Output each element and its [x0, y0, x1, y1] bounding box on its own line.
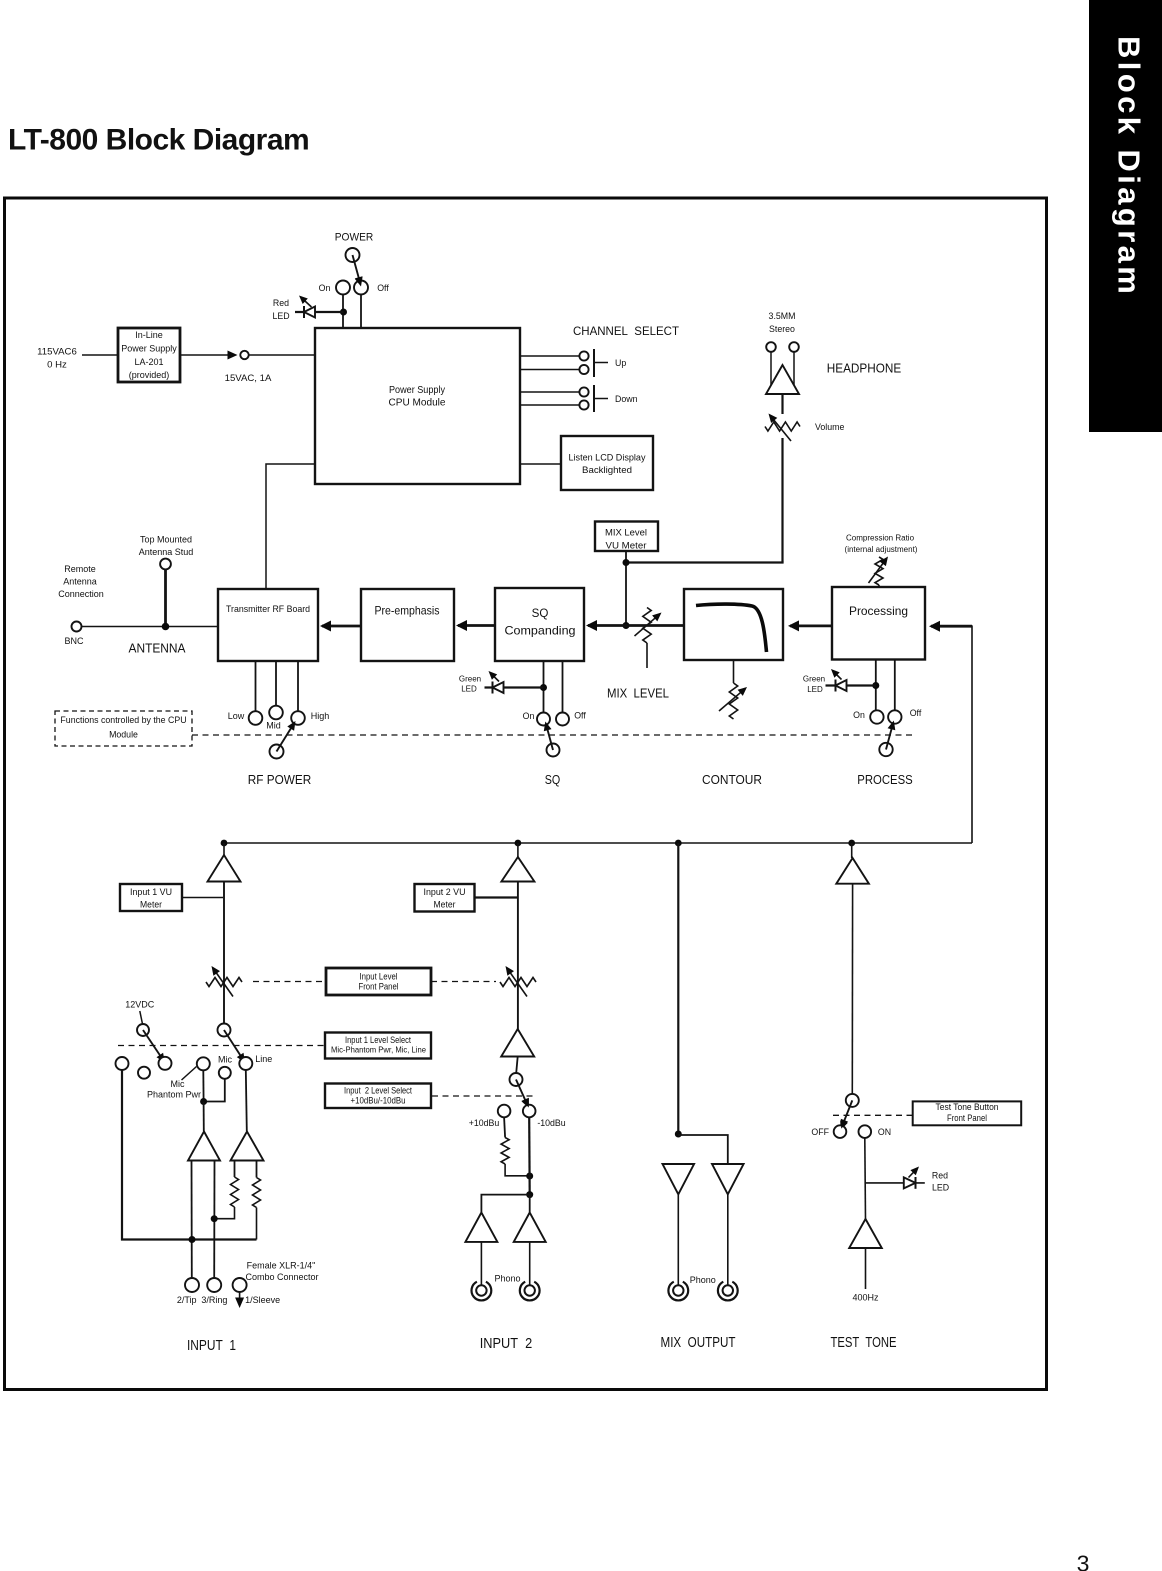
svg-text:-10dBu: -10dBu	[537, 1118, 565, 1128]
switch S1 On contact	[336, 281, 350, 295]
potentiometer CONTOUR internal	[729, 683, 737, 719]
connector phono jack mix left	[668, 1282, 688, 1301]
svg-text:Green: Green	[459, 675, 481, 684]
svg-text:LED: LED	[272, 311, 289, 321]
svg-text:+10dBu/-10dBu: +10dBu/-10dBu	[351, 1096, 406, 1106]
ground symbol input1	[235, 1298, 244, 1309]
wire junction to left preamp	[203, 1102, 205, 1132]
svg-text:Low: Low	[228, 711, 245, 721]
block SQ Companding	[495, 588, 584, 661]
contact phantom NC	[138, 1067, 150, 1079]
wire input1 amp to level pot	[223, 882, 225, 1025]
wire bottom mix bus	[224, 842, 972, 844]
potentiometer input2 level	[500, 978, 536, 987]
svg-text:LT-800 Block Diagram: LT-800 Block Diagram	[8, 124, 309, 157]
svg-text:LED: LED	[807, 685, 823, 694]
switch Up button contacts	[579, 351, 588, 360]
svg-text:LED: LED	[932, 1183, 949, 1193]
svg-text:CPU Module: CPU Module	[389, 397, 446, 409]
dashed link input1 pot to input level box	[253, 981, 326, 983]
junction dot pad join	[526, 1173, 533, 1180]
svg-text:HEADPHONE: HEADPHONE	[827, 361, 902, 376]
svg-text:15VAC, 1A: 15VAC, 1A	[225, 373, 272, 384]
svg-text:Mic: Mic	[218, 1054, 232, 1064]
svg-text:Input 2 Level Select: Input 2 Level Select	[344, 1086, 412, 1096]
svg-text:Antenna: Antenna	[63, 577, 97, 587]
switch RF High contact	[291, 711, 305, 725]
wire signal Pre-emphasis to Transmitter with arrow	[322, 625, 361, 628]
svg-text:Input 1 VU: Input 1 VU	[130, 887, 172, 897]
junction dot input1 bus	[221, 840, 228, 847]
svg-text:Top Mounted: Top Mounted	[140, 535, 192, 545]
svg-text:SQ: SQ	[545, 772, 561, 787]
svg-text:Green: Green	[803, 675, 825, 684]
svg-text:400Hz: 400Hz	[852, 1293, 879, 1303]
svg-text:Test Tone Button: Test Tone Button	[936, 1102, 999, 1112]
wire signal SQ to Pre-emphasis with arrow	[458, 624, 495, 627]
svg-text:Mic-Phantom Pwr, Mic, Line: Mic-Phantom Pwr, Mic, Line	[331, 1046, 427, 1055]
block Listen LCD Display Backlighted	[561, 436, 653, 490]
switch Down button contacts	[579, 387, 588, 396]
wire channel up contact a	[520, 355, 579, 357]
svg-text:LED: LED	[461, 685, 477, 694]
wire signal feed to Processing with arrow and drop to bottom bus	[931, 626, 972, 843]
svg-text:Down: Down	[615, 394, 638, 404]
wire Off contact to CPU module	[360, 295, 362, 329]
svg-text:In-Line: In-Line	[135, 330, 163, 340]
switch RF Mid contact	[269, 706, 283, 720]
switch Process Off contact	[888, 710, 901, 723]
svg-text:LA-201: LA-201	[134, 357, 163, 367]
amp U5 input2 summing	[501, 857, 534, 882]
svg-text:Mid: Mid	[266, 721, 281, 731]
wire signal Processing to Contour with arrow	[790, 625, 832, 628]
wire signal mix line into SQ with arrow	[588, 624, 684, 627]
wire ON contact to oscillator amp	[864, 1138, 867, 1220]
svg-text:Mic: Mic	[171, 1079, 185, 1089]
svg-text:INPUT 2: INPUT 2	[480, 1335, 533, 1352]
junction dot mix output bus	[675, 840, 682, 847]
wire jack to CPU module	[249, 354, 315, 356]
svg-text:Phono: Phono	[494, 1274, 520, 1284]
pointer line mic phantom label	[182, 1067, 197, 1081]
svg-text:Volume: Volume	[815, 422, 844, 432]
wire 12VDC label to switch	[140, 1011, 143, 1024]
svg-text:Meter: Meter	[434, 900, 456, 910]
wire bus to mix output split	[677, 843, 679, 1134]
svg-text:On: On	[853, 710, 865, 720]
wire right preamp to resistor R1	[234, 1161, 236, 1178]
junction dot SQ LED tap	[540, 684, 547, 691]
wire R1 to ring junction	[214, 1207, 234, 1219]
svg-text:0 Hz: 0 Hz	[47, 360, 67, 371]
wire amp to volume pot	[781, 394, 783, 414]
amp U8 input2 right driver	[514, 1213, 546, 1242]
amp U2 input1 summing	[208, 855, 241, 882]
svg-text:(internal adjustment): (internal adjustment)	[845, 545, 918, 554]
svg-text:Red: Red	[273, 298, 289, 308]
potentiometer MIX LEVEL	[643, 608, 651, 644]
wire mix left driver to phono	[677, 1194, 679, 1285]
svg-text:Line: Line	[255, 1054, 272, 1064]
svg-text:On: On	[523, 711, 535, 721]
amp U3 input1 mic preamp	[188, 1132, 220, 1161]
junction dot mix split	[675, 1131, 682, 1138]
wire jack tip to amp	[770, 352, 772, 385]
switch Process On contact	[870, 710, 883, 723]
amp U9 mix left driver	[663, 1164, 695, 1194]
resistor R2 input1	[253, 1178, 261, 1208]
svg-text:Phantom Pwr: Phantom Pwr	[147, 1090, 201, 1100]
wire buffer to test tone switch	[851, 884, 853, 1094]
svg-text:Off: Off	[910, 708, 922, 718]
svg-text:Block Diagram: Block Diagram	[1112, 36, 1147, 297]
wire jack ring to amp	[793, 352, 795, 385]
switch PROCESS lever	[879, 743, 892, 756]
wire antenna stud to feed	[164, 569, 167, 626]
connector XLR pin 1 Sleeve	[233, 1278, 247, 1292]
junction dot mic join	[200, 1098, 207, 1105]
wire split to right output amp	[529, 1195, 531, 1212]
svg-text:2/Tip: 2/Tip	[177, 1295, 197, 1305]
amp U12 test tone oscillator output	[849, 1219, 882, 1248]
diagram border frame	[5, 198, 1047, 1390]
svg-text:(provided): (provided)	[129, 370, 170, 380]
wire SQ box to Off contact	[562, 661, 564, 713]
contact test tone OFF	[834, 1125, 847, 1138]
wire channel up contact b	[520, 369, 579, 371]
switch S1 POWER pivot and lever	[346, 248, 360, 262]
svg-text:INPUT 1: INPUT 1	[187, 1337, 236, 1354]
wire bus to test tone amp	[851, 843, 853, 858]
svg-text:Front Panel: Front Panel	[359, 982, 399, 992]
svg-text:Off: Off	[574, 711, 586, 721]
wire VU meter to mix line	[625, 551, 627, 626]
svg-text:RF POWER: RF POWER	[248, 772, 312, 787]
wire +10dBu to pad resistor	[504, 1117, 505, 1137]
svg-text:Up: Up	[615, 358, 626, 368]
wire processing to On contact	[875, 660, 877, 711]
svg-text:Pre-emphasis: Pre-emphasis	[375, 605, 440, 618]
svg-text:Input 2 VU: Input 2 VU	[424, 887, 466, 897]
svg-text:Phono: Phono	[690, 1275, 716, 1285]
wire processing to Off contact	[894, 660, 896, 711]
connector phono jack mix right	[718, 1282, 738, 1301]
wire transmitter to High contact	[297, 661, 299, 711]
switch test tone pivot and lever	[846, 1094, 859, 1107]
junction dot R1 to ring	[211, 1215, 218, 1222]
wire volume to mix bus	[781, 438, 783, 563]
wire mix split to right driver	[678, 1135, 728, 1164]
switch input2 selector pivot and lever	[510, 1073, 523, 1086]
block Pre-emphasis	[361, 589, 454, 661]
block Contour filter with response curve	[684, 589, 783, 660]
LED D4 Red LED test tone	[904, 1177, 916, 1188]
wire -10dBu to split junction	[528, 1117, 531, 1194]
wire SQ box to On contact	[543, 661, 545, 713]
svg-text:High: High	[311, 711, 330, 721]
svg-text:Remote: Remote	[64, 564, 96, 574]
connector XLR pin 2 Tip	[185, 1278, 199, 1292]
switch input1 selector pivot and lever	[218, 1024, 231, 1037]
svg-text:Power Supply: Power Supply	[389, 384, 446, 396]
svg-text:Front Panel: Front Panel	[947, 1113, 987, 1123]
svg-text:3/Ring: 3/Ring	[201, 1295, 227, 1305]
svg-text:Module: Module	[109, 730, 138, 740]
junction dot sleeve join	[189, 1236, 196, 1243]
svg-text:+10dBu: +10dBu	[469, 1118, 500, 1128]
switch SQ lever	[547, 744, 560, 757]
contact mic-phantom input	[197, 1057, 210, 1070]
potentiometer Volume	[765, 422, 800, 431]
block Input 1 VU Meter	[120, 884, 182, 911]
dashed line functions controlled by CPU	[192, 734, 912, 736]
wire CPU module to LCD	[520, 463, 561, 465]
block Input Level Front Panel callout	[326, 968, 431, 995]
junction dot input2 bus	[515, 840, 522, 847]
block Input 2 Level Select callout	[325, 1084, 431, 1109]
wire sleeve to ground	[239, 1292, 241, 1299]
wire mix right driver to phono	[727, 1194, 729, 1285]
svg-text:CHANNEL SELECT: CHANNEL SELECT	[573, 324, 680, 338]
wire VU meter tap input1	[182, 897, 223, 899]
wire transmitter to Mid contact	[275, 661, 277, 706]
wire mic-phantom contact to amp	[202, 1070, 204, 1101]
wire left driver to phono	[480, 1242, 482, 1285]
LED D2 Green LED SQ	[485, 686, 544, 688]
block Power Supply CPU Module	[315, 328, 520, 484]
wire BNC to transmitter	[82, 626, 219, 628]
switch RF Low contact	[249, 711, 263, 725]
svg-text:Compression Ratio: Compression Ratio	[846, 534, 915, 543]
contact mic input	[219, 1067, 231, 1079]
svg-text:PROCESS: PROCESS	[857, 772, 913, 787]
svg-text:Power Supply: Power Supply	[121, 344, 177, 354]
amp U6 input2 buffer	[501, 1029, 534, 1057]
wire mic contact jog	[204, 1079, 225, 1102]
resistor R1 input1	[231, 1177, 239, 1207]
svg-text:Transmitter RF Board: Transmitter RF Board	[226, 604, 310, 614]
svg-text:Companding: Companding	[505, 625, 576, 638]
block Processing	[832, 587, 925, 660]
wire supply output with arrow	[180, 354, 228, 356]
svg-text:ON: ON	[878, 1127, 891, 1137]
LED D1 Red LED	[295, 311, 344, 313]
svg-text:BNC: BNC	[64, 636, 84, 646]
svg-text:ANTENNA: ANTENNA	[129, 641, 186, 656]
switch RF POWER lever	[270, 745, 284, 759]
dashed box Functions controlled by the CPU Module	[55, 711, 192, 746]
connector phono jack input2 right	[520, 1282, 540, 1301]
contact -10dBu	[523, 1105, 536, 1118]
svg-text:Input 1 Level Select: Input 1 Level Select	[345, 1035, 411, 1045]
amp U11 test tone buffer	[836, 858, 869, 884]
wire buffer to selector	[516, 1057, 518, 1074]
junction dot VU tap on mix line	[623, 622, 630, 629]
connector 15VAC jack	[240, 351, 248, 359]
wire bus to input2 amp	[517, 843, 519, 857]
block In-Line Power Supply LA-201	[118, 328, 180, 382]
wire LED branch	[866, 1182, 925, 1184]
wire oscillator to 400Hz source	[865, 1248, 867, 1289]
svg-text:CONTOUR: CONTOUR	[702, 772, 762, 787]
svg-text:TEST TONE: TEST TONE	[831, 1334, 897, 1351]
potentiometer input1 level	[206, 978, 242, 987]
connector XLR pin 3 Ring	[207, 1278, 221, 1292]
connector antenna stud	[160, 559, 171, 570]
switch S1 Off contact	[354, 281, 368, 295]
svg-text:115VAC6: 115VAC6	[37, 347, 77, 358]
svg-text:OFF: OFF	[811, 1127, 829, 1137]
switch SQ Off contact	[556, 713, 569, 726]
svg-text:Input Level: Input Level	[360, 972, 398, 982]
black side tab Block Diagram	[1089, 0, 1162, 432]
contact +10dBu	[498, 1105, 511, 1118]
svg-text:3: 3	[1077, 1551, 1090, 1571]
contact test tone ON	[859, 1125, 872, 1138]
wire channel down contact a	[520, 391, 579, 393]
contact line input	[239, 1057, 252, 1070]
wire CPU module to transmitter RF board	[266, 464, 315, 589]
switch SQ On contact	[537, 713, 550, 726]
dashed link input1 selector to callout	[118, 1045, 326, 1047]
svg-text:Combo Connector: Combo Connector	[245, 1272, 318, 1282]
contact phantom power feed	[159, 1057, 172, 1070]
block Input 2 VU Meter	[415, 884, 475, 912]
wire input2 amp to level pot	[517, 882, 519, 1030]
wire left preamp leg to XLR pin3	[213, 1161, 215, 1279]
connector phono jack input2 left	[472, 1282, 492, 1301]
resistor R3 pad	[501, 1138, 509, 1165]
wire left preamp leg to XLR pin2	[191, 1161, 193, 1279]
LED D3 Green LED Process	[826, 684, 876, 686]
svg-text:Stereo: Stereo	[769, 324, 795, 334]
block Test Tone Button Front Panel callout	[913, 1101, 1022, 1125]
wire split to left output amp	[481, 1195, 529, 1212]
wire On contact to CPU module	[342, 295, 344, 329]
dashed link input2 selector to callout	[432, 1095, 537, 1097]
junction dot headphone tap	[623, 559, 630, 566]
wire right driver to phono	[529, 1242, 531, 1285]
svg-text:Red: Red	[932, 1171, 948, 1181]
amp U7 input2 left driver	[465, 1213, 497, 1242]
svg-text:VU Meter: VU Meter	[606, 541, 647, 551]
dashed link input level box to input2 pot	[431, 981, 496, 983]
svg-text:SQ: SQ	[532, 607, 549, 620]
connector headphone jack tip	[766, 342, 776, 352]
svg-text:Off: Off	[377, 283, 389, 293]
contact input1 ground terminal	[116, 1057, 129, 1070]
junction dot input2 split	[526, 1191, 533, 1198]
wire contour box to pot	[733, 660, 735, 683]
wire input1 ground bus	[122, 1070, 257, 1240]
block Transmitter RF Board	[218, 589, 318, 661]
connector BNC	[72, 622, 82, 632]
wire transmitter to Low contact	[255, 661, 257, 711]
connector headphone jack ring	[789, 342, 799, 352]
svg-text:Antenna Stud: Antenna Stud	[139, 547, 194, 557]
wire channel down contact b	[520, 404, 579, 406]
block MIX Level VU Meter	[595, 522, 658, 552]
svg-text:Meter: Meter	[140, 900, 162, 910]
svg-text:MIX LEVEL: MIX LEVEL	[607, 686, 669, 701]
svg-text:MIX OUTPUT: MIX OUTPUT	[661, 1334, 736, 1351]
potentiometer compression ratio	[875, 557, 883, 585]
wire AC source to in-line supply	[82, 354, 118, 356]
dashed link test tone switch to callout	[833, 1114, 913, 1116]
wire line contact to right preamp	[246, 1070, 247, 1131]
wire pad resistor to junction	[505, 1164, 530, 1176]
svg-text:Processing: Processing	[849, 605, 908, 618]
svg-text:Female XLR-1/4": Female XLR-1/4"	[247, 1261, 316, 1271]
svg-text:On: On	[319, 283, 331, 293]
junction dot test tone bus	[848, 840, 855, 847]
junction dot power LED tap	[340, 309, 347, 316]
amp U4 input1 line preamp	[231, 1132, 264, 1161]
svg-text:12VDC: 12VDC	[125, 1000, 155, 1010]
svg-text:Connection: Connection	[58, 589, 104, 599]
block Input 1 Level Select callout	[325, 1033, 431, 1059]
svg-text:1/Sleeve: 1/Sleeve	[245, 1295, 280, 1305]
wire VU meter tap input2	[475, 896, 518, 898]
wire R2 to ground bus	[256, 1208, 258, 1240]
wire right preamp to resistor R2	[256, 1161, 258, 1178]
svg-text:Listen LCD Display: Listen LCD Display	[569, 453, 647, 463]
svg-text:MIX Level: MIX Level	[605, 528, 647, 538]
junction dot antenna feed	[162, 623, 170, 631]
svg-text:3.5MM: 3.5MM	[769, 311, 796, 321]
svg-text:Functions controlled by the CP: Functions controlled by the CPU	[60, 715, 186, 725]
junction dot process LED tap	[872, 682, 879, 689]
amp U-HP headphone amplifier	[766, 365, 799, 394]
svg-text:Backlighted: Backlighted	[582, 465, 632, 475]
amp U10 mix right driver	[712, 1164, 744, 1194]
switch phantom power pivot and lever	[137, 1024, 149, 1036]
svg-text:POWER: POWER	[335, 232, 374, 244]
wire bus to input1 amp	[223, 843, 225, 855]
